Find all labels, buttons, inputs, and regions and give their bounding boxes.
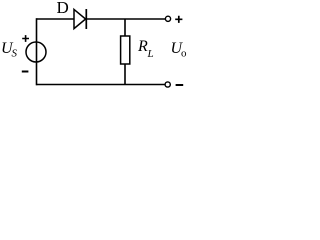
wire: top-left horizontal segment (source to diode anode) xyxy=(37,18,75,20)
output - sign xyxy=(176,84,184,86)
svg-text:R: R xyxy=(137,38,148,55)
source polarity + sign xyxy=(22,35,29,42)
output terminal - (bottom) open circle xyxy=(165,82,170,87)
resistor RL rectangle xyxy=(121,36,130,64)
wire: bottom horizontal segment xyxy=(37,84,166,86)
svg-text:D: D xyxy=(57,0,69,17)
wire: resistor branch vertical (top wire to RL to bottom wire) xyxy=(124,19,126,36)
diode D cathode bar xyxy=(85,9,87,29)
output + sign xyxy=(175,16,182,23)
svg-text:S: S xyxy=(12,48,18,60)
svg-text:o: o xyxy=(181,48,187,60)
svg-text:L: L xyxy=(147,48,154,60)
wire: top-right horizontal segment (diode cathode to + terminal) xyxy=(86,18,165,20)
diode D triangle (anode) xyxy=(74,9,86,28)
output terminal + (top) open circle xyxy=(165,16,170,21)
voltage source US circle xyxy=(26,42,46,62)
source polarity - sign xyxy=(22,71,29,73)
wire: left vertical segment through source xyxy=(36,18,38,85)
